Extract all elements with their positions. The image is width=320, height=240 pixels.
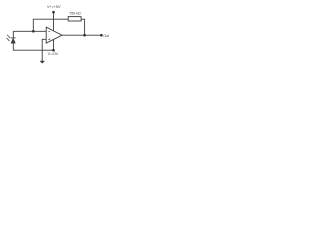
svg-text:Out: Out [103,34,109,38]
svg-text:750 kΩ: 750 kΩ [69,12,81,16]
svg-text:V-=0V: V-=0V [48,52,59,56]
svg-text:V+=+5V: V+=+5V [47,5,61,9]
